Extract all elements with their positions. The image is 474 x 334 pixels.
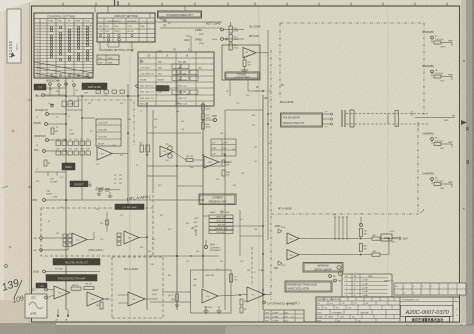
black box CN8: [36, 283, 47, 288]
pwm pin TP3: [323, 123, 330, 125]
resistor vertical 24E upper: [359, 229, 362, 237]
resistor boxes right of U5: [222, 160, 230, 177]
label box TC4011C SCHMITT AMP: [225, 72, 259, 79]
table E terminal Q: [140, 60, 142, 62]
revision mark circle 2: [339, 272, 343, 276]
wire U6 out: [218, 295, 247, 297]
wire U4-R57: [173, 152, 186, 161]
ground mark 1: [98, 190, 100, 194]
ground mark 2: [109, 192, 111, 196]
block outline bottom: [191, 270, 232, 313]
pwm mid marks: [395, 111, 399, 127]
right band speck 2: [467, 160, 470, 164]
connector CH4(PWD): [422, 173, 453, 191]
company name box: [406, 317, 450, 323]
black box amplifier: [82, 83, 107, 90]
bus wire x128: [127, 84, 129, 208]
left frame tick 1: [28, 99, 32, 101]
margin stamp mark: [11, 52, 15, 57]
resistor R30 100K: [229, 26, 232, 33]
cap C20 circle: [168, 146, 172, 150]
resistor horizontal 24E2: [372, 253, 380, 256]
junction dots group: [65, 90, 269, 291]
resistor grid left of U2: [63, 234, 72, 246]
small stack boxes heat sink: [209, 215, 233, 234]
capacitor C5 left: [51, 103, 53, 108]
cap C10 circle: [168, 154, 172, 158]
wire x107 stub: [106, 212, 108, 232]
table E inner sub-cells: [172, 64, 198, 95]
black box gen drive: [115, 204, 144, 210]
wire y166: [147, 165, 222, 167]
small table bottom mid: [264, 310, 304, 322]
bottom left dark blotch: [0, 323, 56, 334]
module boundary dash x271: [270, 50, 272, 300]
component boxes under circles: [62, 101, 78, 107]
fold crease 1: [129, 6, 131, 322]
vertical resistor under E: [44, 160, 47, 166]
wire row y256: [150, 255, 219, 257]
wire y102: [66, 109, 82, 111]
module dash x252: [251, 247, 253, 284]
op-amp U14: [97, 147, 112, 160]
ground after REVERT: [89, 182, 91, 185]
handwritten slash: [14, 280, 22, 298]
revision table: [342, 274, 392, 297]
label box CURRENT FEEDBACK AMP: [199, 194, 236, 205]
wire stub3: [65, 85, 67, 96]
wire y110: [65, 103, 67, 110]
wire RST to bus: [223, 29, 244, 31]
wire stub top frame 1: [94, 6, 96, 13]
vertical stack R44: [202, 122, 205, 129]
module dash M7 top: [271, 213, 420, 215]
terminal CH5 row circle1: [49, 83, 52, 86]
label box MAXIMUM WIDTH LIMITER: [303, 263, 343, 273]
wire U2 out: [87, 239, 94, 241]
black box mute amp: [34, 84, 46, 90]
schmitt block outline: [222, 45, 260, 80]
margin tick: [2, 186, 8, 188]
wire schmitt down2: [247, 80, 249, 91]
wire schmitt output: [256, 52, 268, 54]
op-amp U9: [287, 250, 299, 261]
resistor vert x177: [176, 294, 179, 301]
junction mid: [239, 294, 241, 296]
bus wire x225: [224, 130, 226, 310]
vertical stack R43: [202, 104, 205, 111]
table E terminal left: [136, 85, 139, 88]
wire schmitt down1: [229, 80, 231, 96]
wire y28 RST: [205, 27, 222, 29]
module dash vertical right lower: [417, 128, 419, 212]
wire U14 out: [112, 153, 128, 155]
circled terminal top: [359, 223, 362, 226]
ground schmitt: [241, 69, 248, 71]
terminal circle VFB1 D100: [221, 38, 224, 41]
wire OH-R: [42, 249, 68, 251]
terminal row circle3: [65, 83, 68, 86]
label box REFERENCE TRIANGULAR WAVE OSCILLATOR: [285, 281, 332, 292]
wire y88 left: [35, 87, 66, 89]
wire sync down: [164, 18, 166, 22]
wire AD1 up: [190, 36, 192, 42]
right edge shadow: [466, 0, 474, 334]
labels column A55: [194, 218, 199, 232]
margin orange dot 2: [9, 246, 11, 248]
module dash M7 hook: [420, 209, 424, 213]
wire U12 out: [104, 298, 111, 300]
connector CH3(PWC): [422, 133, 453, 151]
top fold double mark: [114, 0, 116, 6]
resistor grid left of U3: [117, 233, 121, 245]
resistor R31 100K: [229, 35, 232, 42]
wire table B to synchronizer: [149, 13, 151, 18]
pwm pin TP2: [323, 118, 330, 120]
resistor R27 20K: [243, 60, 246, 67]
pwm double bar: [341, 110, 343, 127]
wire tableB stub3: [118, 42, 120, 47]
op-amp U11: [54, 286, 70, 299]
wire OH-B: [42, 237, 63, 239]
wire U7 out: [265, 294, 272, 296]
op-amp U5: [204, 156, 219, 168]
margin orange dot 1: [12, 130, 14, 132]
component box C1F: [96, 119, 121, 146]
op-amp U12: [87, 292, 104, 306]
resistor R32 100K: [229, 43, 232, 50]
module dash vertical right: [423, 23, 425, 115]
bus wire x268 upper: [267, 30, 269, 54]
resistor vertical 24E lower: [359, 244, 362, 252]
pwm small ticks: [411, 111, 413, 116]
wire y110 mid: [225, 109, 263, 111]
op-amp U3: [124, 231, 139, 244]
junction y256: [176, 255, 178, 257]
table A CONTROL SETTING: [34, 13, 93, 78]
box DCF: [381, 234, 392, 241]
wire CH9: [205, 240, 207, 246]
junction lower: [360, 254, 362, 256]
component row2: [56, 151, 90, 155]
wire U5 out: [219, 161, 232, 163]
component row under F1A: [56, 139, 90, 150]
wire x240 mid: [239, 210, 241, 256]
connector CH2(PWB): [422, 65, 453, 83]
title block: [316, 297, 460, 322]
drawing number A20C-0007-0370: [401, 306, 459, 318]
wire stub top frame 2: [107, 6, 109, 13]
wire y236 mid: [240, 235, 263, 237]
wire y133: [147, 132, 201, 134]
wire stub1: [49, 85, 51, 96]
bus wire x177: [176, 70, 178, 310]
op-amp U8: [287, 233, 299, 244]
wire VFB1 to bus: [223, 38, 244, 40]
wire U8 out: [299, 238, 361, 240]
resistor R67 vert: [100, 302, 103, 309]
wire stub2: [58, 86, 60, 96]
dashed pair wire upper: [346, 113, 428, 115]
power arrows +B -B: [55, 309, 69, 322]
pasted note box: [25, 294, 47, 318]
left frame tick 2: [28, 186, 32, 188]
op-amp U10 schmitt: [243, 48, 256, 59]
margin label box 321405: [7, 9, 21, 63]
terminal row circle4: [73, 84, 76, 87]
small res boxes y90: [96, 90, 125, 93]
texture labels group: [36, 89, 272, 277]
black box record mute: [53, 259, 100, 266]
resistor R57 h: [186, 159, 193, 162]
resistor horizontal 24F: [372, 237, 380, 240]
wire top corner: [96, 18, 98, 22]
wire PE: [415, 117, 455, 119]
wire top horiz y22: [97, 21, 222, 23]
bus wire x203: [202, 102, 204, 288]
wire y302 left: [150, 301, 191, 303]
bus wire x263: [262, 95, 264, 310]
table E dark stamp box: [156, 86, 169, 92]
module dashed box M3: [41, 208, 153, 256]
resistor boxes near U7: [240, 299, 248, 313]
setting value boxes: [97, 55, 119, 65]
terminal CH9: [205, 246, 208, 249]
wire feedback: [244, 56, 246, 60]
module dash box M6 top: [280, 22, 425, 24]
parallel verticals group: [333, 215, 348, 241]
black box REVERT: [70, 181, 88, 187]
wire stub4: [73, 86, 75, 96]
connector CH1(PWB): [422, 31, 453, 49]
wire tableB stub4: [131, 42, 133, 52]
diode D20 upper: [278, 229, 282, 233]
ground marks bottom: [204, 306, 222, 314]
wire CH18 long: [45, 271, 100, 273]
module boundary dash y91: [255, 90, 271, 92]
bus wire x147: [146, 102, 148, 310]
terminal DCF mid: [389, 238, 398, 240]
junction dot CH17: [65, 199, 67, 201]
wire stub top frame 3: [184, 6, 186, 11]
diode D21 lower: [278, 261, 282, 265]
terminal circle RST: [221, 28, 224, 31]
label box SYNCHRONIZER CKT: [158, 11, 202, 18]
wire U3 out: [139, 237, 147, 239]
left fold line: [29, 0, 31, 334]
resistor R66 2M: [84, 287, 94, 290]
fold crease 3: [387, 6, 388, 322]
wire band y96: [35, 95, 140, 97]
wire x225 up: [224, 110, 226, 130]
bus wire x66: [65, 78, 67, 310]
wire tableB stub1: [99, 42, 101, 49]
ground x177: [176, 301, 178, 305]
right edge dark line: [472, 0, 474, 334]
wire corner x389: [388, 239, 390, 255]
junction dots band: [65, 95, 67, 97]
wire CH5 down: [165, 55, 167, 58]
terminal CH8: [214, 119, 217, 122]
op-amp U4: [160, 146, 173, 157]
right zone arrow: [461, 120, 467, 125]
table E component values: [138, 52, 214, 106]
bottom edge shadow: [0, 324, 474, 334]
approval strip table: [394, 283, 466, 295]
wire x153 vertical: [152, 110, 154, 190]
dashed pair wire lower: [346, 123, 428, 125]
black box speed detector: [46, 275, 97, 282]
black box DEMO: [62, 163, 75, 170]
vertical stack C17: [202, 113, 205, 120]
wire U13 in: [118, 294, 128, 296]
wire CH17 long: [45, 199, 203, 201]
page corner wedge: [0, 0, 36, 12]
revision mark circle 1: [337, 266, 341, 270]
circled mark BA: [329, 275, 332, 278]
margin terminal circle: [5, 265, 8, 268]
wire top bus: [160, 27, 205, 29]
resistor pair x140: [139, 143, 149, 156]
wire y118: [82, 117, 95, 119]
label box PULSE WIDTH MODULATOR CKT: [281, 113, 323, 127]
junction upper: [360, 238, 362, 240]
wire DCF: [392, 237, 400, 239]
resistor R64 group: [204, 307, 212, 312]
terminal CH7: [263, 301, 266, 304]
small value table mid: [211, 139, 236, 156]
wire y186 mid: [177, 185, 203, 187]
terminal row circle2: [58, 84, 61, 87]
pwm pin TP1: [323, 113, 330, 115]
wire U9 out: [299, 254, 361, 256]
wire y176: [147, 175, 177, 177]
cap C2 boxes right: [230, 274, 239, 282]
op-amp U13: [128, 292, 145, 306]
fold crease 2: [258, 6, 260, 322]
right band speck 1: [466, 127, 469, 131]
wire y172 left: [35, 171, 66, 173]
op-amp U7: [247, 287, 265, 302]
module dash box M6 left: [279, 23, 281, 98]
op-amp U2: [72, 233, 87, 246]
table B MODE SETTING: [97, 13, 155, 42]
wire y226 mid: [233, 225, 263, 227]
dash stub x153: [152, 190, 154, 208]
wire U13 out: [145, 298, 158, 300]
wire y189 small: [95, 189, 120, 191]
module dashed box M2: [112, 257, 163, 318]
circled mark PA5: [334, 279, 337, 282]
module dash path M9: [78, 100, 134, 146]
drawing number header: [400, 297, 460, 322]
bus wire x268 long: [267, 53, 269, 240]
resistor R6B 2K: [71, 287, 81, 290]
pwm rect component: [350, 110, 354, 127]
op-amp U6: [202, 289, 218, 303]
top zone ticks: [63, 3, 447, 7]
wire x82 vertical: [81, 96, 83, 200]
left margin strip: [0, 0, 30, 334]
junction stub M9: [77, 96, 79, 100]
wire y216 mid: [203, 215, 209, 217]
resistor R8 vert: [51, 128, 54, 134]
wire tableB stub2: [107, 42, 109, 47]
